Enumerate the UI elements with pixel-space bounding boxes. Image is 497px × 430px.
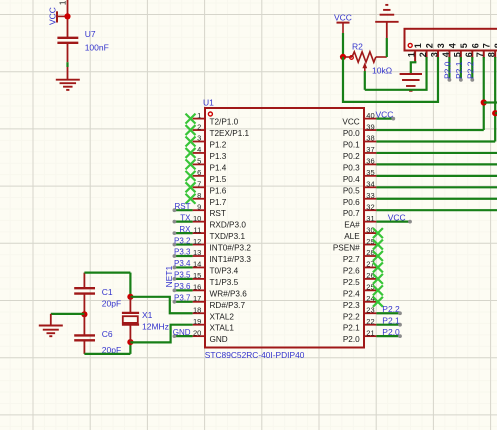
svg-text:19: 19 — [193, 317, 201, 326]
svg-text:34: 34 — [366, 180, 374, 189]
svg-text:R2: R2 — [352, 42, 363, 52]
svg-text:P0.4: P0.4 — [343, 175, 360, 184]
svg-text:EA#: EA# — [344, 221, 360, 230]
svg-text:VCC: VCC — [48, 7, 58, 25]
svg-text:P2.0: P2.0 — [443, 61, 453, 79]
svg-text:P2.0: P2.0 — [343, 335, 360, 344]
svg-text:XTAL2: XTAL2 — [210, 312, 235, 321]
svg-text:P1.3: P1.3 — [210, 152, 227, 161]
svg-text:39: 39 — [366, 122, 374, 131]
svg-text:P0.6: P0.6 — [343, 198, 360, 207]
svg-text:P3.4: P3.4 — [174, 259, 191, 268]
svg-text:P1.6: P1.6 — [210, 186, 227, 195]
svg-text:37: 37 — [366, 145, 374, 154]
svg-text:16: 16 — [193, 283, 201, 292]
svg-text:3: 3 — [429, 52, 439, 57]
svg-text:RD#/P3.7: RD#/P3.7 — [210, 301, 246, 310]
svg-text:XTAL1: XTAL1 — [210, 324, 235, 333]
svg-text:7: 7 — [197, 180, 201, 189]
svg-text:VCC: VCC — [388, 212, 406, 222]
svg-text:P2.1: P2.1 — [454, 61, 464, 79]
svg-text:P2.6: P2.6 — [343, 266, 360, 275]
svg-text:P2.7: P2.7 — [343, 255, 360, 264]
svg-text:INT0#/P3.2: INT0#/P3.2 — [210, 244, 252, 253]
svg-text:18: 18 — [193, 305, 201, 314]
svg-text:P0.7: P0.7 — [343, 209, 360, 218]
svg-text:1: 1 — [407, 52, 417, 57]
svg-text:6: 6 — [197, 168, 201, 177]
svg-text:33: 33 — [366, 191, 374, 200]
svg-text:VCC: VCC — [376, 109, 394, 119]
svg-text:P0.5: P0.5 — [343, 186, 360, 195]
svg-text:RX: RX — [179, 225, 191, 234]
svg-text:6: 6 — [470, 43, 480, 48]
svg-text:2: 2 — [418, 52, 428, 57]
svg-text:P0.1: P0.1 — [343, 141, 360, 150]
svg-text:12MHz: 12MHz — [142, 322, 169, 332]
svg-text:RST: RST — [175, 202, 191, 211]
svg-text:P3.3: P3.3 — [174, 248, 191, 257]
svg-text:T0/P3.4: T0/P3.4 — [210, 266, 239, 275]
svg-text:VCC: VCC — [342, 118, 359, 127]
svg-text:2: 2 — [425, 43, 435, 48]
svg-text:TXD/P3.1: TXD/P3.1 — [210, 232, 246, 241]
svg-text:P2.1: P2.1 — [343, 324, 360, 333]
svg-text:WR#/P3.6: WR#/P3.6 — [210, 289, 248, 298]
svg-text:P1.4: P1.4 — [210, 163, 227, 172]
svg-text:4: 4 — [441, 52, 451, 57]
svg-text:22: 22 — [366, 317, 374, 326]
svg-text:1: 1 — [197, 111, 201, 120]
svg-text:RXD/P3.0: RXD/P3.0 — [210, 221, 247, 230]
svg-text:P1.7: P1.7 — [210, 198, 227, 207]
svg-text:1: 1 — [413, 43, 423, 48]
svg-text:P1.5: P1.5 — [210, 175, 227, 184]
svg-text:7: 7 — [475, 52, 485, 57]
svg-text:U1: U1 — [203, 98, 214, 108]
svg-text:8: 8 — [197, 191, 201, 200]
svg-text:5: 5 — [459, 43, 469, 48]
svg-text:NET1: NET1 — [164, 266, 174, 288]
svg-text:31: 31 — [366, 214, 374, 223]
svg-text:GND: GND — [173, 328, 191, 337]
svg-text:13: 13 — [193, 248, 201, 257]
svg-text:C1: C1 — [102, 287, 113, 297]
svg-text:STC89C52RC-40I-PDIP40: STC89C52RC-40I-PDIP40 — [205, 350, 305, 360]
svg-text:ALE: ALE — [344, 232, 360, 241]
svg-text:1: 1 — [58, 0, 68, 5]
svg-text:PSEN#: PSEN# — [333, 244, 360, 253]
svg-text:3: 3 — [197, 134, 201, 143]
svg-text:4: 4 — [197, 145, 201, 154]
svg-text:VCC: VCC — [334, 13, 352, 23]
svg-text:35: 35 — [366, 168, 374, 177]
svg-text:P2.0: P2.0 — [382, 327, 400, 337]
svg-text:P0.2: P0.2 — [343, 152, 360, 161]
svg-text:P2.2: P2.2 — [382, 304, 400, 314]
svg-text:8: 8 — [487, 52, 497, 57]
svg-text:20pF: 20pF — [102, 298, 121, 308]
svg-text:40: 40 — [366, 111, 374, 120]
svg-text:P2.4: P2.4 — [343, 289, 360, 298]
svg-text:T1/P3.5: T1/P3.5 — [210, 278, 239, 287]
svg-text:4: 4 — [447, 43, 457, 48]
svg-text:P3.7: P3.7 — [174, 294, 191, 303]
svg-text:10: 10 — [193, 214, 201, 223]
svg-text:20: 20 — [193, 328, 201, 337]
svg-text:11: 11 — [194, 225, 202, 234]
svg-text:17: 17 — [193, 294, 201, 303]
svg-text:P1.2: P1.2 — [210, 141, 227, 150]
svg-text:P2.2: P2.2 — [465, 61, 475, 79]
svg-text:P0.0: P0.0 — [343, 129, 360, 138]
svg-text:9: 9 — [197, 202, 201, 211]
svg-text:5: 5 — [452, 52, 462, 57]
svg-text:P2.3: P2.3 — [343, 301, 360, 310]
svg-text:8: 8 — [493, 43, 497, 48]
svg-text:INT1#/P3.3: INT1#/P3.3 — [210, 255, 252, 264]
svg-text:12: 12 — [193, 237, 201, 246]
svg-text:U7: U7 — [85, 29, 96, 39]
svg-text:2: 2 — [197, 122, 201, 131]
svg-text:RST: RST — [210, 209, 226, 218]
svg-text:T2EX/P1.1: T2EX/P1.1 — [210, 129, 250, 138]
svg-text:P2.1: P2.1 — [382, 315, 400, 325]
svg-text:P0.3: P0.3 — [343, 163, 360, 172]
svg-text:32: 32 — [366, 202, 374, 211]
svg-text:GND: GND — [210, 335, 228, 344]
svg-text:21: 21 — [366, 328, 374, 337]
svg-text:6: 6 — [464, 52, 474, 57]
svg-text:100nF: 100nF — [85, 43, 109, 53]
svg-text:T2/P1.0: T2/P1.0 — [210, 118, 239, 127]
svg-text:7: 7 — [482, 43, 492, 48]
svg-text:P2.2: P2.2 — [343, 312, 360, 321]
svg-text:P3.5: P3.5 — [174, 271, 191, 280]
svg-text:3: 3 — [436, 43, 446, 48]
svg-text:14: 14 — [193, 260, 201, 269]
svg-text:TX: TX — [180, 213, 191, 222]
svg-text:C6: C6 — [102, 329, 113, 339]
svg-text:5: 5 — [197, 157, 201, 166]
svg-text:38: 38 — [366, 134, 374, 143]
svg-text:P2.5: P2.5 — [343, 278, 360, 287]
svg-text:P3.2: P3.2 — [174, 236, 191, 245]
svg-text:10kΩ: 10kΩ — [372, 66, 392, 76]
svg-text:36: 36 — [366, 157, 374, 166]
svg-text:X1: X1 — [142, 310, 153, 320]
svg-text:P3.6: P3.6 — [174, 282, 191, 291]
svg-text:15: 15 — [193, 271, 201, 280]
